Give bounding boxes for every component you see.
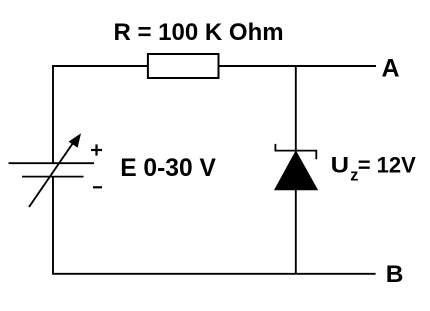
svg-text:E 0-30 V: E 0-30 V <box>120 155 216 182</box>
svg-text:U: U <box>331 152 349 177</box>
minus sign of source E <box>93 186 102 188</box>
variable-source arrow shaft <box>29 142 74 208</box>
wire left vertical lower <box>52 177 54 275</box>
svg-text:R = 100 K Ohm: R = 100 K Ohm <box>114 19 284 46</box>
wire zener branch upper <box>295 66 297 152</box>
wire bottom (node B rail) <box>53 273 376 275</box>
plus sign of source E <box>91 144 102 155</box>
svg-text:= 12V: = 12V <box>358 152 416 177</box>
zener diode anode triangle <box>275 151 318 190</box>
source E short plate (-) <box>22 176 84 178</box>
wire left vertical upper <box>52 65 54 163</box>
wire zener branch lower <box>295 190 297 274</box>
variable-source arrow head <box>69 133 81 148</box>
source E long plate (+) <box>9 162 95 164</box>
resistor R body <box>148 54 219 78</box>
zener diode cathode bar <box>275 144 316 159</box>
wire top (node A rail) <box>53 65 376 67</box>
svg-text:A: A <box>382 55 400 83</box>
svg-text:B: B <box>386 261 404 288</box>
